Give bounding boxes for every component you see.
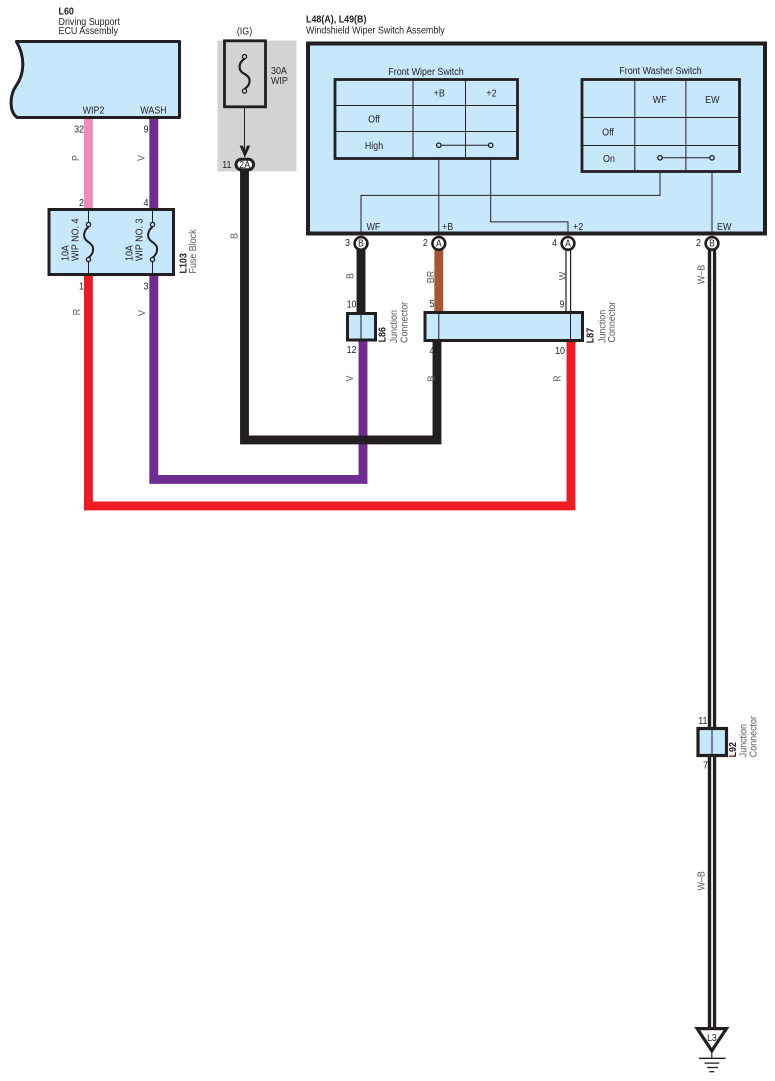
svg-text:+B: +B (442, 221, 453, 233)
svg-text:W–B: W–B (696, 265, 708, 284)
svg-text:+B: +B (434, 88, 445, 100)
svg-text:Front Washer Switch: Front Washer Switch (619, 65, 701, 77)
svg-text:WF: WF (653, 95, 667, 107)
svg-text:W: W (557, 271, 569, 280)
svg-text:WIP NO. 3: WIP NO. 3 (134, 219, 146, 261)
svg-text:7: 7 (703, 760, 708, 772)
svg-text:L86: L86 (377, 326, 389, 342)
svg-text:WF: WF (367, 221, 381, 233)
svg-text:5: 5 (430, 298, 435, 310)
svg-text:+2: +2 (573, 221, 583, 233)
svg-text:W–B: W–B (696, 871, 708, 890)
svg-text:2: 2 (423, 238, 428, 250)
svg-text:4: 4 (144, 197, 149, 209)
svg-text:B: B (358, 238, 364, 249)
svg-text:9: 9 (144, 124, 149, 136)
svg-text:32: 32 (74, 124, 84, 136)
svg-text:4: 4 (430, 345, 435, 357)
svg-text:12: 12 (347, 345, 357, 357)
svg-text:BR: BR (425, 271, 437, 283)
svg-text:High: High (365, 140, 383, 152)
svg-text:R: R (552, 375, 564, 381)
svg-text:R: R (71, 309, 83, 315)
svg-text:B: B (426, 376, 438, 382)
svg-text:11: 11 (698, 715, 707, 727)
svg-text:ECU Assembly: ECU Assembly (59, 25, 119, 37)
svg-text:Connector: Connector (399, 301, 411, 343)
svg-text:A: A (565, 238, 571, 249)
svg-text:2: 2 (696, 238, 701, 250)
svg-text:Off: Off (602, 127, 614, 139)
svg-text:Fuse Block: Fuse Block (187, 229, 199, 273)
svg-text:V: V (136, 155, 148, 161)
svg-text:Connector: Connector (748, 715, 760, 757)
svg-text:Windshield Wiper Switch Assemb: Windshield Wiper Switch Assembly (306, 25, 445, 37)
svg-text:3: 3 (144, 281, 149, 293)
svg-text:9: 9 (560, 299, 565, 311)
svg-text:(IG): (IG) (237, 26, 252, 38)
svg-text:2A: 2A (239, 159, 251, 171)
svg-text:EW: EW (717, 221, 732, 233)
svg-text:11: 11 (222, 159, 231, 171)
svg-text:A: A (436, 238, 442, 249)
svg-text:10: 10 (555, 345, 565, 357)
svg-text:+2: +2 (486, 88, 496, 100)
svg-text:Off: Off (368, 114, 380, 126)
svg-text:L87: L87 (585, 328, 597, 343)
svg-text:WIP NO. 4: WIP NO. 4 (70, 218, 82, 261)
svg-text:WIP2: WIP2 (83, 105, 105, 117)
svg-text:V: V (136, 310, 148, 316)
svg-text:WASH: WASH (140, 105, 166, 117)
svg-text:1: 1 (79, 281, 84, 293)
svg-text:3: 3 (345, 238, 350, 250)
svg-text:B: B (709, 238, 715, 249)
svg-text:4: 4 (552, 238, 557, 250)
svg-text:2: 2 (79, 197, 84, 209)
svg-text:P: P (70, 155, 82, 161)
svg-text:B: B (229, 233, 241, 239)
svg-text:L3: L3 (707, 1032, 717, 1044)
svg-text:B: B (345, 273, 357, 279)
svg-text:V: V (344, 375, 356, 381)
svg-text:WIP: WIP (271, 75, 288, 87)
svg-text:Front Wiper Switch: Front Wiper Switch (388, 66, 463, 78)
svg-text:On: On (603, 153, 615, 165)
svg-text:Connector: Connector (606, 301, 618, 343)
svg-text:10: 10 (347, 299, 357, 311)
svg-text:EW: EW (705, 95, 720, 107)
